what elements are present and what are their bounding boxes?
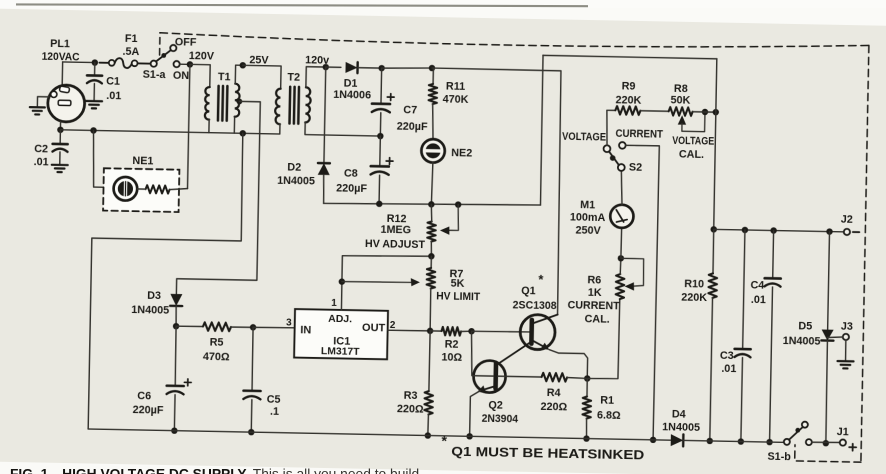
svg-text:ON: ON (173, 70, 190, 82)
svg-text:R8: R8 (674, 83, 688, 95)
transformer T1 secondary winding (235, 84, 240, 117)
wire R11 top lead (432, 68, 434, 84)
wire T1 center tap to D3 drop (176, 100, 260, 295)
resistor R5 (203, 322, 231, 331)
wire R2 left lead (430, 330, 441, 332)
junction dot R11 top (429, 65, 436, 72)
junction dot C7 top (378, 65, 385, 72)
wire R6 wiper loop (620, 258, 644, 286)
svg-text:.01: .01 (106, 90, 121, 102)
meter M1 body (610, 204, 634, 228)
resistor R10 (708, 273, 717, 298)
switch S1-a ON contact (173, 61, 179, 67)
wire R7 wiper (342, 281, 412, 283)
junction dot doubler mid (377, 133, 384, 140)
svg-text:1N4005: 1N4005 (131, 304, 169, 317)
svg-text:J2: J2 (841, 213, 853, 225)
svg-text:1N4005: 1N4005 (277, 175, 315, 188)
svg-text:HV ADJUST: HV ADJUST (365, 238, 426, 251)
svg-text:.01: .01 (751, 294, 766, 306)
transistor Q1 body (520, 314, 555, 349)
switch S2 arm (609, 152, 619, 166)
wire R5 left lead (176, 325, 203, 328)
svg-text:PL1: PL1 (50, 38, 70, 50)
junction dot D5 bottom (823, 440, 830, 447)
svg-text:1K: 1K (588, 287, 602, 299)
wire C4 upper lead (772, 231, 775, 279)
svg-text:S2: S2 (629, 161, 642, 173)
junction dot 120V node (187, 61, 194, 68)
resistor R12 (427, 221, 436, 241)
wire neutral drop L (88, 130, 243, 431)
wire NE1 right exit (170, 188, 188, 190)
junction dot C3 bottom (738, 438, 745, 445)
switch S2 arm dot (610, 155, 616, 161)
wire plug top to C1 junction (63, 61, 95, 64)
junction dot NE1 drop (90, 127, 97, 134)
neon lamp NE1 gap (124, 180, 128, 198)
junction dot C3 top (742, 227, 749, 234)
wire C2 node to NE1 left (92, 130, 115, 187)
junction dot D5 top (826, 228, 833, 235)
junction dot Q1 emitter node (584, 375, 591, 382)
wire rect rail to Q1 collector corner (427, 68, 562, 314)
svg-text:470Ω: 470Ω (203, 351, 230, 364)
wire OUT pin (388, 330, 430, 331)
svg-text:FIG. 1—HIGH VOLTAGE DC SUPPLY.: FIG. 1—HIGH VOLTAGE DC SUPPLY. This is a… (10, 466, 419, 474)
capacitor C6 (167, 384, 184, 387)
junction dot Q2 emitter bottom (466, 433, 473, 440)
wire D1 cathode to C7 node (358, 67, 382, 69)
svg-text:2SC1308: 2SC1308 (513, 299, 557, 312)
wire D3 cathode to R5 node (175, 306, 178, 326)
svg-text:R1: R1 (600, 394, 614, 406)
svg-text:C3: C3 (720, 350, 734, 362)
wire R6 top lead (619, 258, 622, 274)
wire T2 primary bottom to neutral (279, 124, 281, 134)
svg-text:VOLTAGE: VOLTAGE (672, 135, 714, 148)
capacitor C7 (372, 102, 390, 105)
page top white strip (0, 0, 886, 8)
svg-text:.1: .1 (270, 405, 279, 417)
svg-text:*: * (441, 432, 447, 448)
junction dot R8 at right rail (713, 109, 720, 116)
neon lamp NE2 gap (424, 149, 441, 153)
svg-text:220µF: 220µF (336, 182, 367, 195)
svg-text:NE1: NE1 (132, 155, 153, 167)
svg-text:ADJ.: ADJ. (328, 313, 352, 325)
wire Q1 emitter path (549, 350, 588, 379)
transformer T2 primary winding (275, 89, 281, 125)
junction dot C6 bottom (171, 427, 178, 434)
neon lamp NE1 center line (124, 182, 126, 196)
arrow R6 wiper head (625, 282, 635, 291)
resistor R7 (427, 268, 436, 289)
svg-text:R6: R6 (587, 274, 601, 286)
junction dot R7 top (428, 253, 435, 260)
capacitor C1 lead (94, 63, 96, 76)
svg-text:1N4006: 1N4006 (333, 89, 371, 102)
wire IN lead (253, 327, 295, 328)
switch S2 common contact (618, 164, 625, 171)
wire 120V node down to NE1 (188, 64, 190, 188)
svg-text:J3: J3 (841, 321, 853, 333)
label J2 minus (853, 231, 859, 233)
plug PL1 bottom lead (59, 122, 61, 130)
wire ADJ pin up (341, 255, 431, 312)
wire R3 bottom lead (427, 415, 430, 436)
junction dot C5 bottom (248, 429, 255, 436)
svg-text:D5: D5 (798, 320, 812, 332)
wire meter bottom lead (620, 228, 623, 258)
junction dot R12 top (428, 201, 435, 208)
wire C3 upper lead (743, 230, 745, 349)
switch S1-a left contact (151, 61, 157, 67)
wire C6 upper lead (175, 326, 176, 386)
svg-text:6.8Ω: 6.8Ω (597, 409, 621, 421)
svg-text:IN: IN (300, 324, 311, 336)
wire R5 right lead (231, 326, 253, 329)
junction dot C5 top (250, 324, 257, 331)
junction dot C4 top (770, 227, 777, 234)
svg-text:NE2: NE2 (451, 147, 472, 159)
transistor Q2 collector (497, 342, 529, 365)
junction dot R7 wiper tap (339, 278, 346, 285)
svg-text:25V: 25V (249, 54, 269, 66)
dashed gang line bottom border (795, 445, 861, 462)
svg-text:220K: 220K (615, 94, 641, 106)
junction dot meter bottom node (618, 255, 625, 262)
wire top rail (543, 55, 717, 58)
wire D5 lower lead (825, 341, 827, 444)
plug PL1 top lead (61, 62, 63, 85)
svg-text:S1-b: S1-b (767, 451, 791, 463)
fuse F1 left terminal (109, 60, 115, 66)
resistor R11 (428, 84, 437, 104)
wire R12 wiper drop (446, 204, 459, 230)
wire meter top lead (621, 171, 623, 205)
dashed gang line top border (160, 32, 869, 52)
svg-text:C4: C4 (750, 279, 764, 291)
wire R11 to NE2 (432, 104, 434, 139)
neon lamp NE2 body (421, 139, 445, 163)
wire adjust rail (324, 201, 541, 208)
resistor R6 (616, 274, 625, 299)
svg-text:470K: 470K (443, 93, 469, 105)
svg-text:Q2: Q2 (488, 399, 503, 411)
junction dot R5 left (173, 323, 180, 330)
junction dot C4 bottom (766, 439, 773, 446)
svg-text:C7: C7 (403, 104, 417, 116)
svg-text:CURRENT: CURRENT (615, 128, 663, 141)
wire R12 top lead (431, 204, 432, 221)
jack J2 terminal (844, 229, 850, 235)
diode D4 (671, 434, 684, 446)
switch S1-a arm dot (161, 53, 166, 58)
transistor Q2 base bar (493, 363, 498, 388)
transistor Q1 emitter (531, 340, 547, 349)
wire S1-b to J1 (812, 441, 840, 444)
wire R9 to R8 (640, 110, 668, 113)
transformer T2 secondary winding (305, 87, 311, 122)
wire T1 secondary top lead (235, 65, 243, 84)
svg-text:C1: C1 (106, 75, 120, 87)
neon lamp NE1 electrodes (118, 181, 133, 196)
plug ground symbol (30, 107, 45, 114)
switch S2 CURRENT contact (619, 142, 626, 149)
svg-text:50K: 50K (670, 94, 690, 106)
svg-text:R9: R9 (622, 81, 636, 93)
svg-text:5K: 5K (451, 278, 465, 290)
switch S1-b arm dot (795, 428, 800, 433)
wire C5 lower lead (250, 400, 253, 432)
switch S1-b right contact (806, 439, 812, 445)
wire Q2 base drop (471, 331, 495, 376)
dashed gang line at S1-a (159, 33, 161, 55)
jack J3 terminal (843, 334, 849, 340)
diode D3 (170, 294, 182, 306)
svg-text:R11: R11 (446, 80, 465, 92)
resistor R9 (615, 106, 640, 115)
svg-text:R3: R3 (404, 390, 418, 402)
wire CURRENT contact drop (620, 145, 659, 440)
capacitor C2 lead (59, 130, 61, 144)
svg-text:1N4005: 1N4005 (783, 335, 821, 348)
svg-text:1N4005: 1N4005 (662, 421, 700, 434)
ground under C2 (52, 165, 68, 173)
plug PL1 body (47, 85, 84, 122)
svg-text:D3: D3 (147, 290, 161, 302)
wire R3 top lead (429, 331, 430, 391)
neutral wire plug to T2 (60, 130, 279, 134)
switch S1-b arm (789, 427, 803, 440)
wire R4 left lead (498, 375, 542, 378)
svg-text:CURRENT: CURRENT (568, 300, 621, 313)
wire D2 anode lead (323, 175, 324, 204)
wire C8 bottom lead (378, 175, 381, 204)
capacitor C3 (735, 348, 751, 351)
wire 25V to T2 primary top (242, 65, 281, 88)
wire R7 bottom lead (430, 289, 431, 331)
arrow Q1 emitter head (541, 343, 550, 350)
label J1 plus (849, 444, 856, 451)
svg-text:C8: C8 (344, 167, 358, 179)
junction dot right rail 229 (710, 226, 717, 233)
wire R1 bottom lead (585, 419, 588, 439)
wire R4 right lead (567, 376, 587, 379)
svg-text:C5: C5 (267, 393, 281, 405)
junction dot neutral drop (240, 130, 247, 137)
switch S1-a arm (156, 49, 171, 61)
svg-text:OUT: OUT (362, 322, 386, 334)
svg-text:.5A: .5A (122, 46, 139, 58)
junction dot C8 bottom (376, 201, 383, 208)
junction dot D1 anode node (323, 64, 330, 71)
svg-text:220µF: 220µF (397, 121, 428, 134)
svg-text:HV LIMIT: HV LIMIT (436, 290, 481, 303)
svg-text:.01: .01 (721, 363, 736, 375)
svg-text:250V: 250V (575, 224, 601, 236)
arrow R8 wiper head (678, 115, 687, 124)
junction dot R8 loop (702, 109, 709, 116)
svg-text:CAL.: CAL. (679, 148, 704, 160)
svg-text:10Ω: 10Ω (441, 351, 462, 363)
wire R1 top lead (586, 378, 588, 396)
fuse F1 right terminal (132, 60, 138, 66)
wire R10 bottom lead (710, 298, 713, 441)
svg-text:CAL.: CAL. (584, 313, 609, 325)
capacitor C5 (244, 389, 261, 392)
resistor NE1 series (146, 185, 170, 193)
wire output rail to J2 (714, 229, 844, 231)
neon lamp NE2 electrodes (425, 143, 440, 158)
svg-text:R4: R4 (547, 387, 561, 399)
dashed gang line right border (861, 45, 869, 462)
plug PL1 upper slot (59, 86, 69, 93)
transformer T2 core (289, 87, 299, 124)
transformer T1 center tap dot (236, 98, 242, 104)
IC1 LM317T box (294, 309, 388, 359)
wire ON contact to 120V node (180, 63, 190, 65)
transistor Q2 body (473, 360, 506, 393)
switch S2 VOLTAGE contact (603, 145, 610, 152)
wire C7 node to R11 top (382, 67, 432, 69)
junction dot R10 bottom (707, 438, 714, 445)
resistor R4 (541, 373, 567, 382)
resistor R3 (424, 391, 433, 415)
transformer T1 core (218, 86, 227, 121)
transistor Q2 emitter (480, 386, 495, 391)
switch S1-a OFF contact (170, 45, 176, 51)
junction dot Q bases node (468, 328, 475, 335)
switch S1-b open contact (802, 422, 808, 428)
junction dot R3 bottom (425, 432, 432, 439)
svg-text:F1: F1 (125, 33, 138, 45)
jack J1 terminal (840, 439, 846, 445)
wire NE2 bottom (431, 163, 433, 205)
svg-text:2: 2 (390, 320, 396, 331)
wire bottom rail mid (683, 440, 787, 442)
svg-text:C6: C6 (137, 390, 151, 402)
svg-text:OFF: OFF (175, 36, 197, 48)
wire C6 lower lead (173, 395, 176, 431)
junction dot 25V node (240, 62, 247, 69)
diode D1 (345, 62, 357, 73)
svg-text:D1: D1 (344, 77, 358, 89)
svg-text:R5: R5 (210, 336, 224, 348)
fuse F1 (99, 58, 151, 69)
wire R7 top lead (430, 256, 432, 268)
svg-text:220µF: 220µF (133, 404, 164, 417)
svg-text:M1: M1 (580, 199, 595, 211)
resistor R1 (582, 396, 591, 418)
svg-text:220Ω: 220Ω (540, 401, 567, 414)
wire bottom rail left (88, 429, 670, 440)
wire C3 lower lead (741, 358, 743, 442)
transistor Q1 base bar (529, 320, 534, 344)
meter M1 needle (616, 210, 624, 222)
capacitor C2 (53, 143, 68, 146)
wire D2 top lead (324, 67, 326, 163)
wire T2 secondary bottom to doubler mid (305, 122, 381, 136)
svg-text:D4: D4 (672, 408, 686, 420)
ground under C1 (86, 101, 102, 109)
diode D2 (318, 163, 330, 175)
svg-text:Q1: Q1 (521, 285, 536, 297)
wire R8 wiper loop (682, 112, 705, 132)
arrow R12 wiper head (440, 226, 450, 235)
svg-text:T1: T1 (218, 71, 231, 83)
svg-text:VOLTAGE: VOLTAGE (562, 131, 606, 144)
junction dot R1 bottom (583, 435, 590, 442)
junction dot plug bottom (57, 127, 64, 134)
wire D5 upper lead (828, 232, 830, 330)
wire R2 right lead (461, 330, 472, 333)
wire C8 top lead (379, 136, 382, 166)
ground at J3 (837, 361, 853, 369)
wire J3 ground lead (844, 340, 846, 361)
wire C5 upper lead (252, 327, 253, 390)
svg-text:220Ω: 220Ω (397, 403, 424, 416)
wire A vertical (540, 55, 543, 205)
diode D5 (821, 329, 833, 340)
scan seam line top (16, 4, 588, 6)
svg-text:C2: C2 (34, 143, 48, 155)
switch S1-b left contact (784, 439, 790, 445)
wire T2 secondary top lead (306, 67, 326, 88)
resistor R2 (441, 327, 461, 336)
capacitor C1 lower lead (93, 84, 95, 101)
meter M1 scale (616, 219, 627, 222)
svg-text:R2: R2 (445, 338, 459, 350)
wire D1 anode (326, 66, 341, 68)
svg-text:.01: .01 (33, 156, 48, 168)
arrow R7 wiper head (411, 278, 420, 286)
capacitor C8 (371, 165, 389, 168)
transformer T1 primary winding (205, 87, 210, 120)
neon lamp NE1 body (113, 177, 137, 201)
junction dot R12 wiper top (455, 201, 462, 208)
svg-text:1: 1 (331, 298, 337, 309)
svg-text:S1-a: S1-a (143, 69, 167, 81)
svg-text:T2: T2 (287, 72, 300, 84)
svg-text:100mA: 100mA (570, 211, 606, 224)
junction dot CURRENT bottom (650, 437, 657, 444)
capacitor C4 (765, 277, 781, 280)
transistor Q1 collector (532, 314, 558, 324)
arrow Q2 emitter head (478, 385, 486, 393)
svg-text:R10: R10 (684, 278, 704, 290)
wire D5 to J3 (827, 336, 842, 339)
svg-text:120V: 120V (189, 50, 215, 62)
wire Q2 emitter down (470, 391, 481, 437)
wire C7 bottom lead (379, 113, 381, 136)
wire 120V node to T1 primary top (189, 64, 210, 87)
neon lamp NE1 box (103, 168, 179, 212)
svg-text:J1: J1 (837, 426, 849, 438)
wire C7 top lead (380, 68, 383, 104)
svg-text:3: 3 (286, 318, 292, 329)
capacitor C1 (87, 74, 102, 77)
capacitor C2 lower lead (59, 152, 61, 164)
plug PL1 left hole (51, 91, 57, 97)
wire Q1 base (472, 331, 530, 333)
wire right vertical to R10 (712, 229, 715, 273)
svg-text:120VAC: 120VAC (42, 51, 80, 64)
wire T1 primary bottom to neutral (208, 120, 210, 133)
wire NE1 bulb to resistor (137, 188, 145, 190)
wire R12 bottom (430, 241, 433, 256)
